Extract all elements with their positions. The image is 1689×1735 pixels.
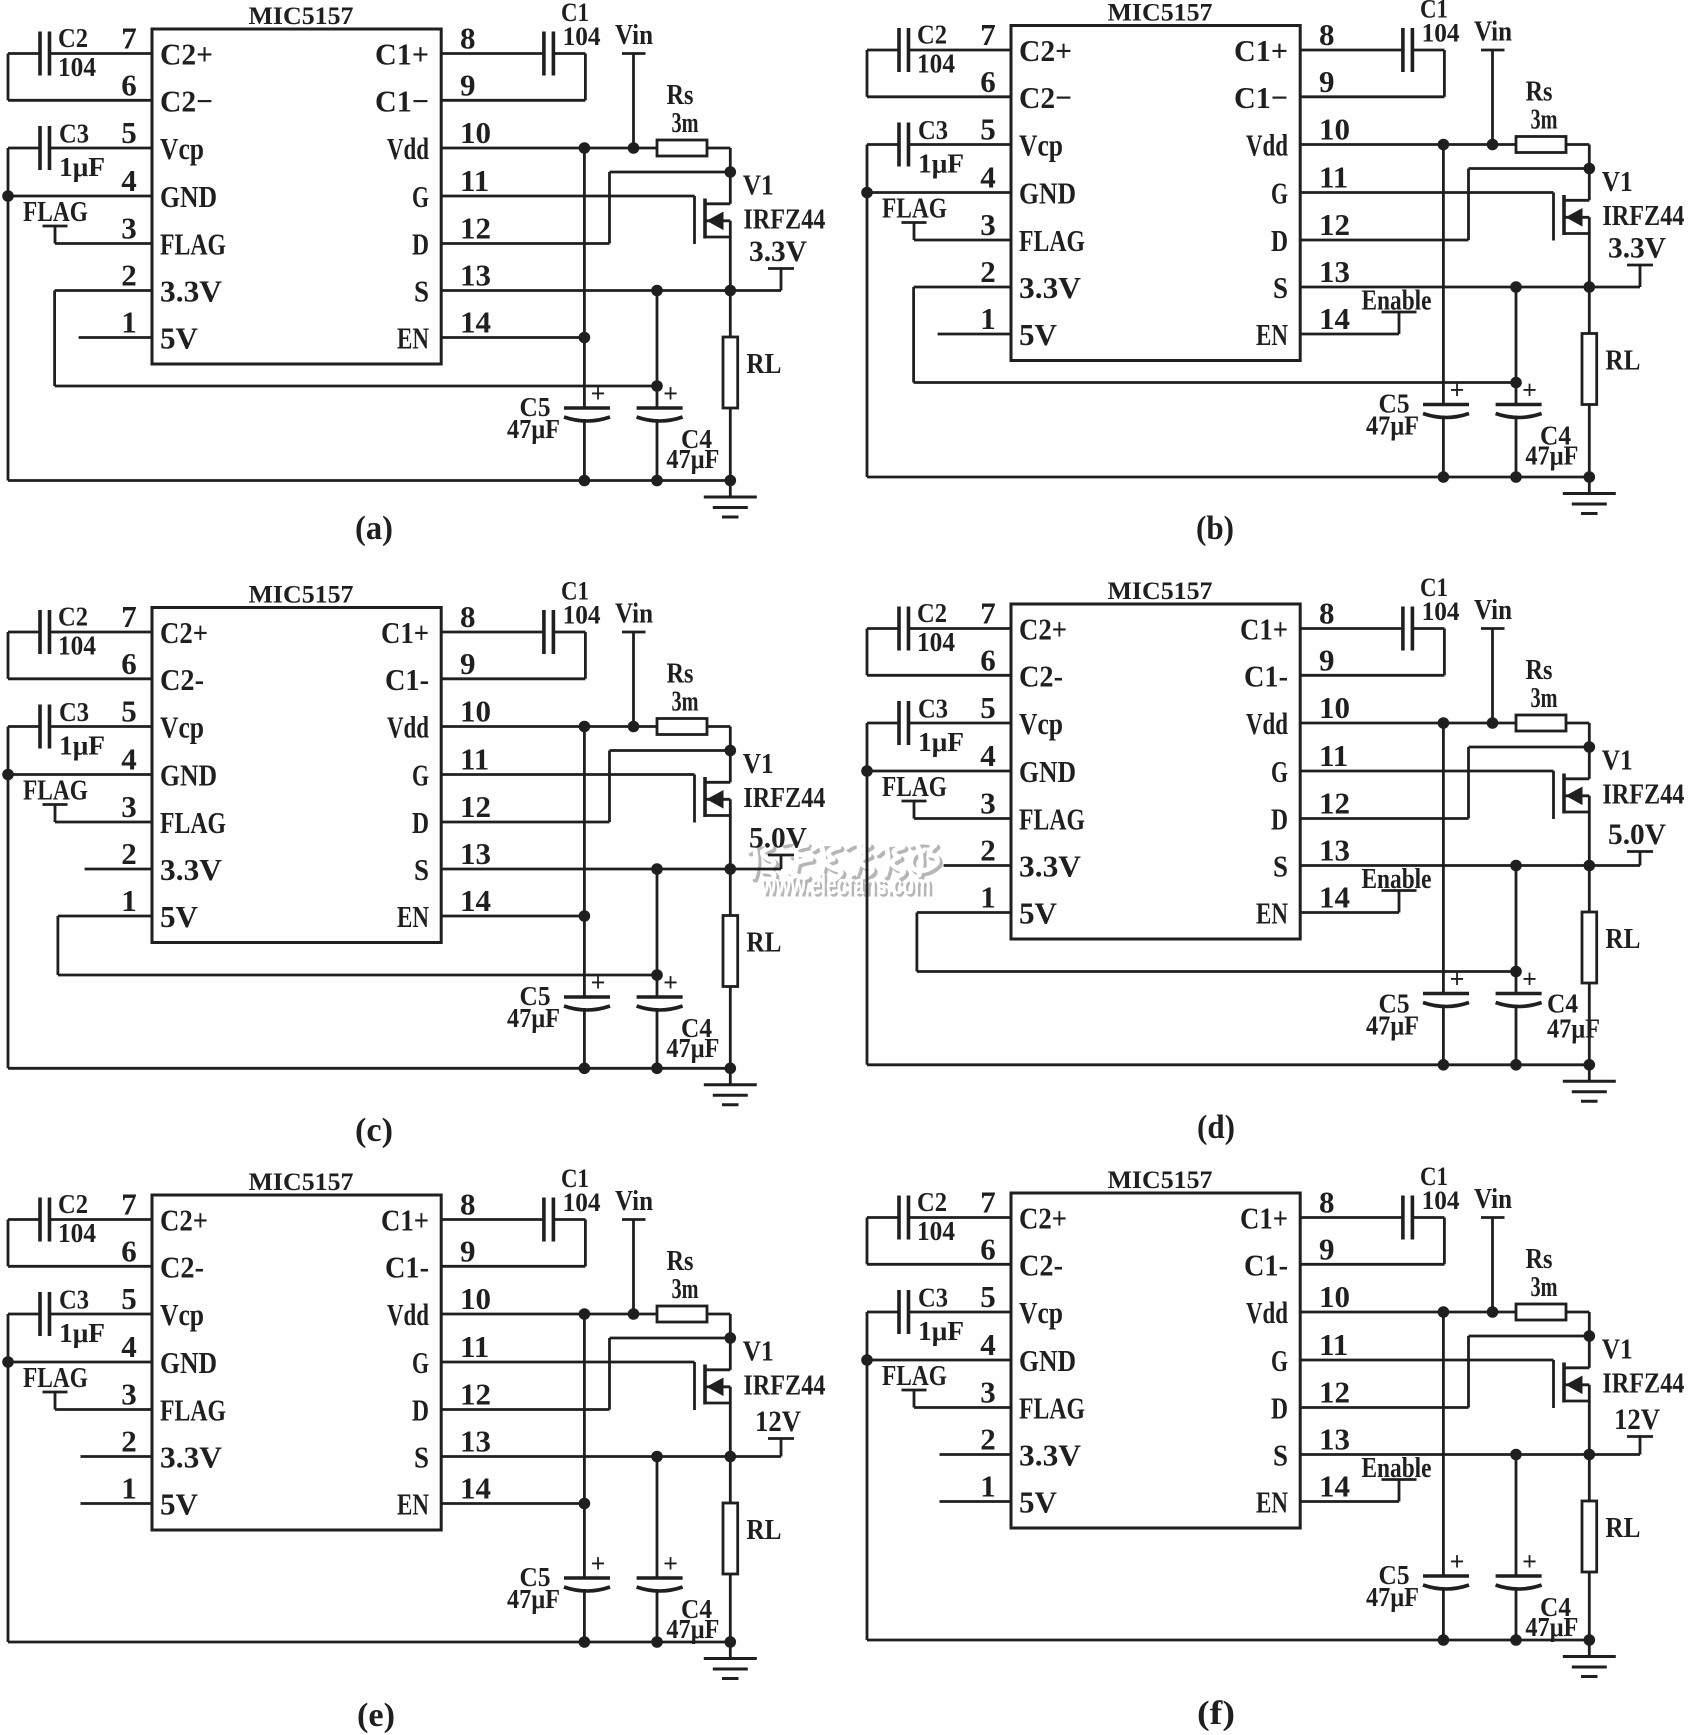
pin number 1: [121, 1471, 137, 1506]
svg-text:GND: GND: [160, 1345, 217, 1380]
svg-text:5: 5: [121, 1281, 137, 1316]
wire pin13 S output line: [1300, 286, 1640, 289]
svg-text:GND: GND: [1019, 176, 1076, 211]
svg-text:C1-: C1-: [385, 662, 429, 697]
wire pin10 Vdd: [1300, 1311, 1516, 1314]
capacitor C5 47uF (electrolytic): [1366, 1547, 1469, 1612]
resistor RL: [723, 869, 781, 1068]
wire pin7 to C2: [51, 52, 152, 55]
svg-text:S: S: [414, 1440, 429, 1475]
junction C5/rail: [1438, 471, 1450, 483]
svg-text:RL: RL: [1605, 1513, 1640, 1544]
wire pin2 3.3V stub: [940, 1453, 1012, 1456]
pin number 5: [980, 1279, 996, 1314]
capacitor C1 104: [1403, 573, 1460, 651]
svg-text:FLAG: FLAG: [1019, 223, 1085, 258]
junction drain/D-wire: [725, 1332, 737, 1344]
svg-text:Vdd: Vdd: [1246, 706, 1288, 741]
svg-text:Vcp: Vcp: [160, 131, 204, 166]
svg-text:MIC5157: MIC5157: [249, 582, 354, 609]
pin number 14: [460, 1471, 491, 1506]
svg-text:Rs: Rs: [1526, 77, 1553, 108]
capacitor C3 1uF: [899, 1283, 964, 1347]
svg-text:Vdd: Vdd: [387, 1297, 429, 1332]
pin number 13: [460, 258, 491, 293]
capacitor C2 104: [40, 1189, 96, 1248]
junction Vin/Vdd: [1487, 139, 1499, 151]
svg-text:6: 6: [980, 64, 996, 99]
svg-text:104: 104: [563, 22, 601, 51]
capacitor C2 104: [40, 602, 96, 661]
wire pin12 D to drain node: [1300, 1336, 1589, 1408]
pin number 10: [1319, 690, 1350, 725]
capacitor C4 47uF (electrolytic): [1496, 1547, 1579, 1642]
pin number 12: [460, 211, 491, 246]
wire Rs to drain node: [707, 1314, 730, 1370]
svg-text:C3: C3: [918, 1283, 948, 1313]
caption (d): [1197, 1109, 1235, 1146]
svg-text:Vdd: Vdd: [387, 131, 429, 166]
wire pin11 G to gate: [441, 773, 694, 776]
pin number 4: [980, 738, 996, 773]
svg-text:C2-: C2-: [160, 662, 204, 697]
svg-text:14: 14: [460, 1471, 491, 1506]
svg-text:104: 104: [917, 1216, 955, 1246]
svg-text:D: D: [1271, 802, 1288, 837]
wire pin12 D to drain node: [441, 1338, 730, 1410]
node FLAG terminal: [882, 1360, 947, 1408]
svg-text:C3: C3: [918, 115, 948, 145]
junction S/C4: [651, 1451, 663, 1463]
pin number 12: [460, 789, 491, 824]
junction GND/left vertical: [861, 1354, 873, 1366]
svg-text:C1+: C1+: [1240, 612, 1288, 647]
wire pin4 GND to left vertical: [8, 773, 152, 776]
pin number 6: [121, 1233, 137, 1268]
transistor V1 IRFZ44: [695, 1337, 826, 1457]
svg-text:G: G: [1271, 176, 1288, 211]
capacitor C3 1uF: [40, 697, 105, 761]
svg-text:11: 11: [1319, 160, 1348, 195]
junction S/source-RL: [1584, 860, 1596, 872]
svg-text:47μF: 47μF: [507, 1003, 560, 1033]
resistor RL: [723, 291, 781, 481]
svg-text:Vdd: Vdd: [387, 710, 429, 745]
svg-text:Vin: Vin: [1474, 595, 1512, 626]
pin number 13: [460, 1424, 491, 1459]
wire C1 to pin9 loop: [441, 632, 585, 679]
pin number 1: [121, 883, 137, 918]
node Vin power terminal: [615, 1186, 653, 1314]
wire pin8 to C1: [441, 631, 542, 634]
svg-text:RL: RL: [746, 928, 781, 959]
wire C5 vertical: [1442, 723, 1445, 1065]
svg-text:S: S: [1273, 849, 1288, 884]
wire C4 vertical: [656, 291, 659, 481]
junction S/C4: [651, 285, 663, 297]
svg-text:Vin: Vin: [615, 599, 653, 630]
svg-text:D: D: [412, 227, 429, 262]
svg-text:+: +: [1522, 376, 1537, 405]
pin number 6: [121, 646, 137, 681]
svg-text:2: 2: [980, 833, 996, 868]
pin number 4: [121, 163, 137, 198]
resistor RL: [723, 1457, 781, 1643]
svg-text:C2-: C2-: [160, 1249, 204, 1284]
node FLAG terminal: [23, 196, 88, 244]
wire ground rail: [8, 479, 730, 482]
svg-text:FLAG: FLAG: [160, 1393, 226, 1428]
pin number 2: [980, 254, 996, 289]
svg-text:GND: GND: [1019, 754, 1076, 789]
svg-text:S: S: [1273, 1438, 1288, 1473]
wire C5 vertical: [583, 148, 586, 481]
pin number 2: [980, 833, 996, 868]
svg-text:5: 5: [980, 1279, 996, 1314]
svg-text:47μF: 47μF: [666, 1614, 719, 1644]
pin number 10: [460, 694, 491, 729]
pin number 7: [980, 17, 996, 52]
svg-text:13: 13: [1319, 254, 1350, 289]
svg-text:EN: EN: [397, 1487, 429, 1522]
svg-text:6: 6: [121, 646, 137, 681]
junction C5/rail: [1438, 1634, 1450, 1646]
wire pin8 to C1: [1300, 1216, 1401, 1219]
svg-text:C3: C3: [59, 119, 89, 149]
pin number 10: [460, 115, 491, 150]
node output 3.3V terminal: [1608, 232, 1666, 288]
svg-text:6: 6: [121, 67, 137, 102]
wire feedback line to C4 node: [55, 385, 657, 388]
svg-text:14: 14: [1319, 880, 1350, 915]
capacitor C1 104: [544, 0, 601, 76]
svg-text:10: 10: [460, 115, 491, 150]
resistor Rs 3m: [1516, 655, 1566, 731]
svg-text:9: 9: [460, 646, 476, 681]
svg-text:3: 3: [121, 789, 137, 824]
junction GND/left vertical: [2, 190, 14, 202]
pin number 11: [1319, 160, 1348, 195]
svg-text:C2+: C2+: [160, 1203, 208, 1238]
svg-text:D: D: [1271, 1391, 1288, 1426]
node output 3.3V terminal: [749, 235, 807, 291]
IC U-e MIC5157 body: [152, 1169, 441, 1530]
junction drain/D-wire: [1584, 741, 1596, 753]
capacitor C4 47uF (electrolytic): [1496, 965, 1600, 1044]
svg-text:3m: 3m: [672, 108, 699, 139]
wire C2 to pin6 loop: [8, 54, 152, 101]
svg-text:S: S: [414, 852, 429, 887]
svg-text:Vcp: Vcp: [1019, 1295, 1063, 1330]
wire C3 to ground rail (left vertical): [867, 1312, 898, 1640]
junction Vin/Vdd: [628, 1308, 640, 1320]
svg-text:3m: 3m: [672, 687, 699, 718]
transistor V1 IRFZ44: [1554, 1335, 1685, 1455]
svg-text:10: 10: [1319, 112, 1350, 147]
svg-text:S: S: [1273, 270, 1288, 305]
wire pin1 5V stub: [79, 336, 152, 339]
svg-text:Rs: Rs: [1526, 1244, 1553, 1275]
svg-text:1: 1: [121, 305, 137, 340]
pin number 6: [980, 642, 996, 677]
svg-text:FLAG: FLAG: [160, 227, 226, 262]
svg-text:D: D: [412, 1393, 429, 1428]
svg-text:3: 3: [980, 786, 996, 821]
wire pin4 GND to left vertical: [867, 191, 1011, 194]
svg-text:Vin: Vin: [1474, 17, 1512, 48]
resistor Rs 3m: [657, 80, 707, 156]
svg-text:12: 12: [1319, 1375, 1350, 1410]
svg-text:C2: C2: [58, 23, 88, 53]
capacitor C3 1uF: [899, 694, 964, 758]
svg-text:5: 5: [980, 112, 996, 147]
svg-text:IRFZ44: IRFZ44: [743, 783, 825, 814]
svg-text:MIC5157: MIC5157: [1108, 578, 1213, 605]
svg-text:+: +: [663, 1549, 678, 1578]
resistor Rs 3m: [1516, 1244, 1566, 1320]
node Vin power terminal: [1474, 595, 1512, 723]
pin number 10: [460, 1281, 491, 1316]
svg-text:C2-: C2-: [1019, 658, 1063, 693]
junction feedback/C4: [651, 380, 663, 392]
node FLAG terminal: [882, 193, 947, 241]
svg-text:G: G: [412, 758, 429, 793]
wire pin13 S output line: [441, 289, 781, 292]
svg-text:EN: EN: [397, 899, 429, 934]
svg-text:5V: 5V: [160, 899, 199, 934]
pin number 9: [1319, 64, 1335, 99]
svg-text:FLAG: FLAG: [160, 805, 226, 840]
svg-text:47μF: 47μF: [666, 444, 719, 474]
svg-text:C2: C2: [58, 602, 88, 632]
IC U-d MIC5157 body: [1011, 578, 1300, 939]
svg-text:47μF: 47μF: [1366, 411, 1419, 441]
pin number 11: [460, 1329, 489, 1364]
wire C2 to pin6 loop: [867, 50, 1011, 97]
svg-text:V1: V1: [743, 171, 774, 202]
svg-text:Vcp: Vcp: [160, 1297, 204, 1332]
svg-text:47μF: 47μF: [1525, 441, 1578, 471]
transistor V1 IRFZ44: [1554, 167, 1685, 287]
svg-text:C2+: C2+: [1019, 612, 1067, 647]
node Vin power terminal: [615, 20, 653, 148]
capacitor C4 47uF (electrolytic): [1496, 376, 1579, 471]
junction C5/rail: [1438, 1059, 1450, 1071]
pin number 14: [1319, 301, 1350, 336]
wire pin5 Vcp to C3: [51, 1313, 152, 1316]
pin number 6: [980, 64, 996, 99]
wire C3 to ground rail (left vertical): [867, 723, 898, 1065]
svg-text:3: 3: [980, 1375, 996, 1410]
wire C3 to ground rail (left vertical): [8, 727, 39, 1069]
wire pin12 D to drain node: [441, 751, 730, 823]
svg-text:C2-: C2-: [1019, 1247, 1063, 1282]
pin number 11: [460, 163, 489, 198]
resistor Rs 3m: [657, 1246, 707, 1322]
svg-text:1μF: 1μF: [918, 1316, 964, 1346]
svg-text:C1+: C1+: [381, 615, 429, 650]
capacitor C5 47uF (electrolytic): [1366, 965, 1469, 1041]
svg-text:IRFZ44: IRFZ44: [743, 205, 825, 236]
wire C5 vertical: [583, 1314, 586, 1642]
pin number 7: [121, 599, 137, 634]
wire pin5 Vcp to C3: [910, 722, 1011, 725]
caption (e): [357, 1697, 395, 1734]
svg-text:47μF: 47μF: [1366, 1582, 1419, 1612]
svg-text:1: 1: [980, 1469, 996, 1504]
pin number 2: [121, 836, 137, 871]
svg-text:C2: C2: [917, 598, 947, 628]
junction C4/rail: [1510, 471, 1522, 483]
svg-text:RL: RL: [746, 349, 781, 380]
junction RL/rail end: [725, 1063, 737, 1075]
wire C3 to ground rail (left vertical): [8, 1314, 39, 1642]
wire pin8 to C1: [1300, 49, 1401, 52]
pin number 12: [1319, 786, 1350, 821]
wire pin10 Vdd: [441, 1313, 657, 1316]
pin number 9: [1319, 642, 1335, 677]
wire pin7 to C2: [51, 1218, 152, 1221]
capacitor C3 1uF: [40, 1285, 105, 1349]
junction Vdd/C5: [1438, 717, 1450, 729]
svg-text:13: 13: [1319, 1422, 1350, 1457]
wire pin2 3.3V stub: [85, 868, 152, 871]
svg-text:4: 4: [121, 1329, 137, 1364]
svg-text:13: 13: [1319, 833, 1350, 868]
junction C4/rail: [651, 1636, 663, 1648]
transistor V1 IRFZ44: [695, 749, 826, 869]
svg-text:2: 2: [980, 1422, 996, 1457]
capacitor C5 47uF (electrolytic): [1366, 376, 1469, 441]
wire pin14 EN to C5 node: [441, 336, 584, 339]
caption (a): [355, 510, 393, 547]
svg-text:9: 9: [1319, 64, 1335, 99]
svg-text:FLAG: FLAG: [23, 1362, 88, 1394]
svg-text:104: 104: [563, 601, 601, 630]
pin number 11: [1319, 1327, 1348, 1362]
svg-text:C2+: C2+: [1019, 33, 1072, 68]
junction EN/C5 vertical: [579, 332, 591, 344]
pin number 9: [460, 1233, 476, 1268]
svg-text:7: 7: [121, 1187, 137, 1222]
node FLAG terminal: [882, 771, 947, 819]
svg-text:Enable: Enable: [1362, 864, 1432, 895]
svg-text:FLAG: FLAG: [23, 775, 88, 807]
svg-text:G: G: [1271, 1343, 1288, 1378]
wire pin4 GND to left vertical: [867, 1359, 1011, 1362]
node output 12V terminal: [1614, 1403, 1660, 1455]
svg-text:47μF: 47μF: [507, 414, 560, 444]
svg-text:3m: 3m: [1531, 683, 1558, 714]
pin number 9: [460, 646, 476, 681]
junction S/source-RL: [725, 1451, 737, 1463]
svg-text:Vdd: Vdd: [1246, 1295, 1288, 1330]
wire C4 vertical: [656, 1457, 659, 1643]
wire FLAG to pin3: [55, 242, 152, 245]
svg-text:EN: EN: [397, 321, 429, 356]
svg-text:Rs: Rs: [667, 80, 694, 111]
svg-text:14: 14: [1319, 1469, 1350, 1504]
wire C1 to pin9 loop: [1300, 629, 1444, 676]
svg-text:11: 11: [460, 163, 489, 198]
pin number 1: [980, 1469, 996, 1504]
svg-text:7: 7: [121, 599, 137, 634]
capacitor C4 47uF (electrolytic): [637, 379, 720, 474]
resistor Rs 3m: [1516, 77, 1566, 153]
svg-text:8: 8: [460, 1187, 476, 1222]
junction C4/rail: [1510, 1634, 1522, 1646]
svg-text:104: 104: [917, 627, 955, 657]
svg-text:3.3V: 3.3V: [1019, 1438, 1082, 1473]
svg-text:10: 10: [460, 1281, 491, 1316]
svg-text:104: 104: [58, 1218, 96, 1248]
svg-text:3.3V: 3.3V: [160, 274, 223, 309]
svg-text:5.0V: 5.0V: [749, 822, 807, 855]
junction Vin/Vdd: [628, 142, 640, 154]
pin number 4: [980, 1327, 996, 1362]
svg-text:3m: 3m: [1531, 105, 1558, 136]
capacitor C4 47uF (electrolytic): [637, 1549, 720, 1644]
svg-text:2: 2: [121, 836, 137, 871]
pin number 3: [980, 207, 996, 242]
resistor RL: [1582, 1455, 1640, 1641]
pin number 11: [460, 742, 489, 777]
svg-text:V1: V1: [1602, 1335, 1633, 1366]
wire pin14 EN to C5 node: [441, 1502, 584, 1505]
svg-text:Vcp: Vcp: [1019, 128, 1063, 163]
svg-text:C3: C3: [59, 697, 89, 727]
pin number 7: [980, 1185, 996, 1220]
junction Vdd/C5: [579, 721, 591, 733]
svg-text:C3: C3: [59, 1285, 89, 1315]
pin number 13: [1319, 833, 1350, 868]
svg-text:2: 2: [980, 254, 996, 289]
svg-text:G: G: [412, 1345, 429, 1380]
svg-text:C2: C2: [917, 20, 947, 50]
svg-text:RL: RL: [1605, 346, 1640, 377]
svg-text:C2−: C2−: [1019, 80, 1072, 115]
svg-text:V1: V1: [1602, 746, 1633, 777]
wire pin14 EN to Enable terminal: [1300, 911, 1399, 914]
junction C4/rail: [651, 1063, 663, 1075]
junction RL/rail end: [1584, 471, 1596, 483]
svg-text:C1+: C1+: [1234, 33, 1288, 68]
pin number 6: [980, 1231, 996, 1266]
wire feedback line to C4 node: [917, 970, 1516, 973]
svg-text:6: 6: [980, 1231, 996, 1266]
junction feedback/C4: [1510, 377, 1522, 389]
svg-text:14: 14: [460, 883, 491, 918]
capacitor C2 104: [899, 598, 955, 657]
svg-text:C1−: C1−: [375, 83, 429, 118]
svg-text:Vin: Vin: [615, 1186, 653, 1217]
svg-text:14: 14: [1319, 301, 1350, 336]
node Enable terminal: [1362, 1453, 1432, 1502]
svg-text:1μF: 1μF: [59, 731, 105, 761]
wire C4 vertical: [1515, 866, 1518, 1065]
svg-text:+: +: [1450, 965, 1465, 994]
pin number 3: [980, 786, 996, 821]
wire FLAG to pin3: [914, 817, 1011, 820]
node FLAG terminal: [23, 775, 88, 823]
svg-text:S: S: [414, 274, 429, 309]
wire pin10 Vdd: [441, 147, 657, 150]
IC U-a MIC5157 body: [152, 3, 441, 364]
ground symbol: [1563, 1640, 1616, 1677]
capacitor C2 104: [40, 23, 96, 82]
wire pin12 D to drain node: [1300, 169, 1589, 241]
node Enable terminal: [1362, 864, 1432, 913]
